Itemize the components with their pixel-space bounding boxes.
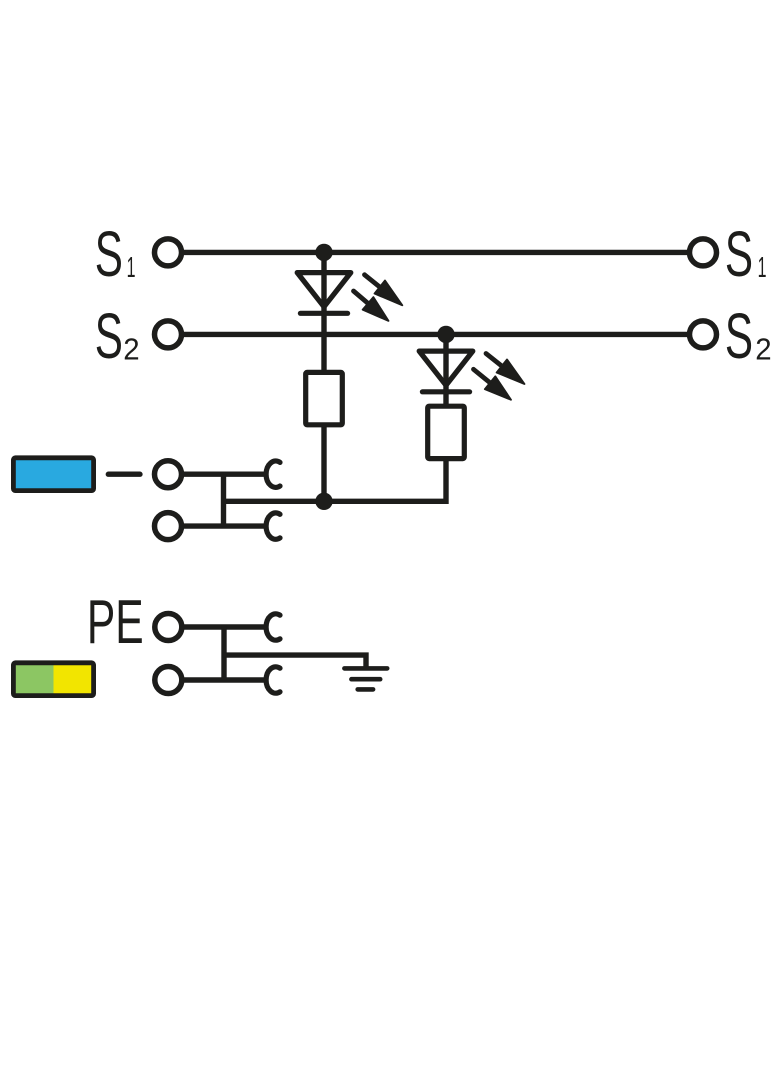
svg-text:2: 2 [755,333,771,367]
svg-text:1: 1 [127,251,136,283]
svg-text:1: 1 [758,251,767,283]
svg-text:S: S [95,219,123,290]
svg-text:S: S [725,219,753,290]
svg-text:S: S [95,301,123,372]
svg-text:S: S [725,301,753,372]
svg-text:2: 2 [123,333,139,367]
svg-text:PE: PE [87,588,144,657]
